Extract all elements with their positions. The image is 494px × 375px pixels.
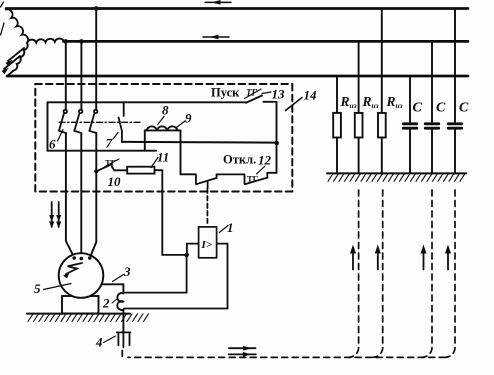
svg-text:11: 11	[157, 150, 169, 165]
svg-text:13: 13	[272, 87, 286, 102]
svg-text:5: 5	[34, 281, 41, 296]
svg-text:4: 4	[95, 335, 103, 350]
svg-text:C: C	[459, 101, 469, 116]
svg-text:Откл.: Откл.	[223, 153, 256, 167]
svg-text:1: 1	[227, 220, 234, 235]
svg-text:9: 9	[185, 111, 192, 126]
svg-text:C: C	[436, 101, 446, 116]
svg-text:Пуск: Пуск	[211, 86, 240, 100]
svg-text:6: 6	[49, 137, 56, 152]
svg-text:C: C	[413, 101, 423, 116]
svg-text:10: 10	[108, 174, 122, 189]
svg-text:Rиз: Rиз	[362, 94, 379, 110]
svg-text:8: 8	[162, 103, 169, 118]
svg-text:7: 7	[106, 136, 113, 151]
svg-text:Rиз: Rиз	[340, 94, 357, 110]
svg-text:Rиз: Rиз	[386, 94, 403, 110]
svg-text:ТГ: ТГ	[247, 174, 258, 184]
svg-text:3: 3	[123, 264, 131, 279]
svg-text:2: 2	[102, 296, 110, 311]
svg-text:14: 14	[304, 88, 318, 103]
svg-text:I>: I>	[201, 239, 213, 251]
svg-text:12: 12	[258, 153, 272, 168]
